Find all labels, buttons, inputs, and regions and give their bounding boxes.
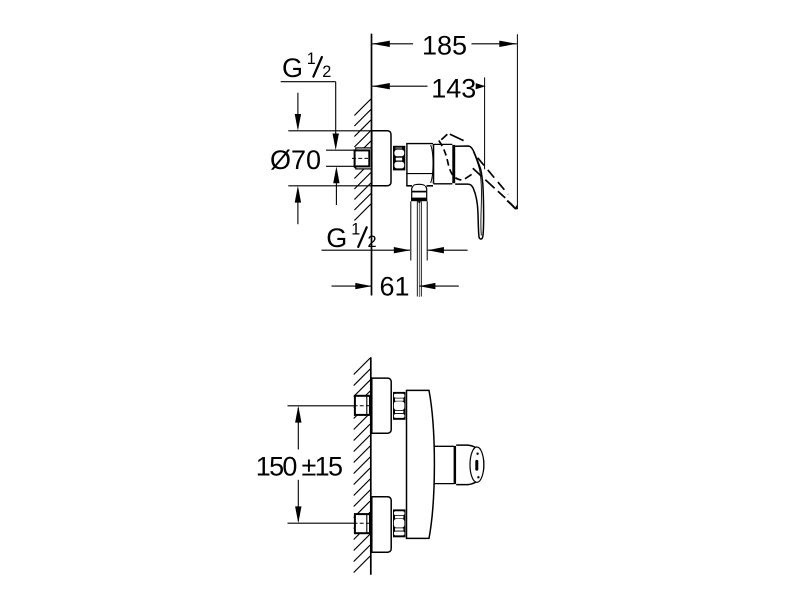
escutcheon top (bottom view) [372,378,391,433]
svg-text:150 ±15: 150 ±15 [256,451,342,481]
svg-text:185: 185 [422,30,467,60]
slash of G1/2 top [313,57,322,77]
main body (top view) [407,144,433,186]
divider ring (black) [452,145,455,183]
extension line 185 right [516,34,518,209]
washer behind square nut [356,148,372,169]
svg-text:2: 2 [322,63,331,81]
svg-text:143: 143 [431,73,476,103]
150 +-15 dimension [288,405,354,407]
svg-text:G: G [282,53,303,83]
union nut bottom (bottom view) [393,509,405,537]
cartridge section [434,143,453,145]
wall hatching (top view) [354,99,371,221]
dia70 extent lines [288,130,371,132]
nut dashed centerline [352,157,368,159]
wall line (top view) [371,34,373,296]
G 1/2 top leader [281,81,336,83]
dimension 185 arrows [372,41,390,47]
square nut [355,150,370,166]
body (bottom view) [407,390,435,538]
hose tube [417,201,421,203]
svg-text:1: 1 [307,50,316,68]
svg-text:61: 61 [379,271,409,301]
wall line (bottom view) [370,357,372,574]
61 dimension [332,285,372,287]
inlet nut top (bottom view) [355,396,370,415]
phantom handle (dashed, raised position) [439,134,517,208]
dimension 185 line [372,43,413,45]
extension line 143 right [484,77,486,169]
wall hatching (bottom view) [354,358,371,573]
svg-text:G: G [326,223,347,253]
escutcheon plate (top view) [372,131,391,186]
union nut top (bottom view) [393,392,405,420]
inlet nut bottom (bottom view) [355,514,370,533]
G1/2 lower extension lines [410,201,412,260]
outlet (bottom view) [434,445,454,447]
cap and handle (solid) [455,146,483,239]
nozzle under body [413,184,424,186]
svg-text:Ø70: Ø70 [270,145,321,175]
svg-text:2: 2 [368,233,377,251]
inlet pipe [326,149,355,151]
union nut (top view) [393,146,405,171]
G 1/2 lower leader + arrows [322,249,411,251]
slash of G1/2 lower [358,227,367,247]
svg-text:1: 1 [351,220,360,238]
dimension 143 arrows [372,83,390,89]
dimension 143 line [372,85,427,87]
dia70 arrows [297,93,299,128]
escutcheon bottom (bottom view) [372,497,391,552]
